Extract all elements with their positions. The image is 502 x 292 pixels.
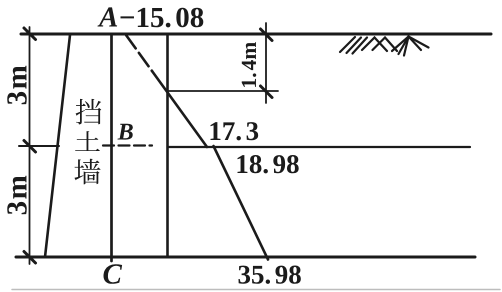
node label A xyxy=(98,7,118,26)
ground surface line xyxy=(21,33,491,36)
retaining wall left edge xyxy=(45,35,70,257)
node label C xyxy=(104,264,123,283)
pressure line layer1 solid part xyxy=(152,71,207,147)
value label -15.08 xyxy=(121,8,204,28)
wall text qiang xyxy=(74,159,100,185)
dimension label 3m lower xyxy=(7,176,26,215)
value label 18.98 xyxy=(238,155,299,173)
1.4m tick bottom xyxy=(261,86,273,98)
dim tick bottom xyxy=(24,252,36,264)
value label 17.3 xyxy=(211,122,259,140)
wall text tu xyxy=(75,131,100,151)
1.4m tick top xyxy=(261,29,273,41)
retaining wall right face xyxy=(110,34,113,261)
dim tick mid xyxy=(24,141,36,153)
ground hatching xyxy=(340,37,429,56)
dimension label 1.4m xyxy=(242,42,256,87)
pressure line layer2 xyxy=(214,146,269,260)
pressure line layer1 dashed part xyxy=(126,35,152,71)
faint page line xyxy=(12,289,500,291)
middle soil boundary line xyxy=(168,146,471,148)
B level dashed line xyxy=(103,144,152,146)
bottom base line xyxy=(16,256,475,259)
1.4m dimension line xyxy=(265,23,267,103)
pressure zero axis xyxy=(166,34,169,257)
dim tick top xyxy=(24,28,36,40)
value label 35.98 xyxy=(239,266,301,284)
1.4m extension line xyxy=(168,90,279,92)
dim extension mid xyxy=(19,145,59,147)
dimension label 3m upper xyxy=(7,66,26,105)
wall text dang xyxy=(76,99,102,125)
node label B xyxy=(118,124,133,140)
left dimension line xyxy=(29,27,31,264)
